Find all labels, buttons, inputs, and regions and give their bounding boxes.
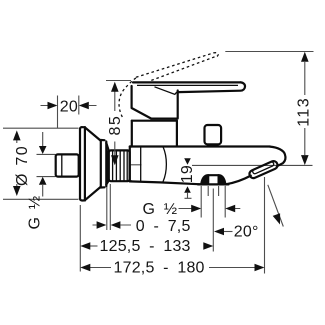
escutcheon cone: [85, 127, 101, 200]
escutcheon ring rim: [101, 140, 107, 188]
dim 113 (vertical, right): [304, 62, 306, 155]
wall stub pipe G1/2: [56, 154, 79, 176]
dim 0 - 7,5 (horizontal): [93, 224, 132, 226]
dim 20 (horizontal, top left): [41, 105, 97, 107]
wire: extension lines shower outlet G1/2: [201, 186, 225, 218]
dim 172,5 - 180 (horizontal, bottom): [90, 267, 255, 269]
wire: 20-degree slant flow line: [268, 185, 284, 227]
wire: extension lines G1/2 stub top and bottom: [37, 154, 56, 176]
barrel / spout top edge: [130, 145, 270, 147]
svg-text:125,5 - 133: 125,5 - 133: [100, 238, 191, 255]
wire: aerator plane line for dims 19 and 113: [192, 164, 313, 166]
spout tip: [270, 147, 285, 167]
wire: extension line escutcheon top for dim diameter 70: [3, 127, 79, 129]
svg-text:113: 113: [295, 97, 312, 127]
dashed raised-lever outline: [119, 78, 136, 117]
wire: extension ticks for dim 20: [58, 96, 79, 129]
wire: extension lines for dim 0-7,5: [107, 184, 111, 230]
svg-text:172,5 - 180: 172,5 - 180: [114, 259, 205, 276]
wire: extension line raised-lever top for dim 113: [225, 51, 313, 53]
body block: [132, 120, 177, 122]
wire: extension line escutcheon face down to bottom dims: [79, 205, 81, 272]
wire: extension line lever-top for dim 85: [106, 80, 131, 82]
dim 85 (vertical) drawn over nut: [114, 91, 116, 156]
svg-text:Ø 70: Ø 70: [14, 145, 31, 186]
arrow on slant flow line: [273, 213, 280, 224]
wire: extension line escutcheon bottom for dim diameter 70: [3, 198, 79, 200]
dim 19 (vertical, under spout): [184, 158, 191, 165]
dim diameter 70 (vertical, far left): [16, 140, 18, 188]
dim 20 degrees (angle label): [224, 231, 233, 233]
svg-text:20°: 20°: [234, 223, 259, 240]
dim 125,5 - 133 (horizontal): [90, 245, 98, 247]
wire: extension line aerator axis for dim 172,5-180: [264, 177, 266, 274]
escutcheon face flange (diameter 70): [79, 129, 81, 199]
barrel underside: [130, 181, 201, 184]
shower outlet dome (check valve): [201, 175, 208, 184]
diverter knob on spout: [205, 125, 222, 144]
aerator (mousseur, angled 20deg): [248, 160, 278, 179]
barrel seam lines: [140, 147, 142, 182]
handle lever (solid): [133, 81, 241, 83]
svg-text:0 - 7,5: 0 - 7,5: [136, 218, 191, 235]
spout underside right: [226, 176, 251, 185]
wire: outlet axis line: [212, 189, 214, 252]
svg-text:G ½: G ½: [27, 194, 44, 229]
barrel left cap: [130, 147, 132, 182]
handle base: [132, 86, 178, 119]
svg-text:85: 85: [107, 115, 124, 136]
wire: centerline tick right of nut: [130, 164, 142, 166]
svg-text:G ½: G ½: [143, 201, 178, 218]
svg-text:20: 20: [60, 98, 78, 115]
threaded nut: [109, 150, 130, 181]
handle grip notch: [155, 87, 177, 95]
dim G1/2 (vertical, left stub): [42, 132, 44, 197]
svg-text:19: 19: [179, 165, 196, 183]
